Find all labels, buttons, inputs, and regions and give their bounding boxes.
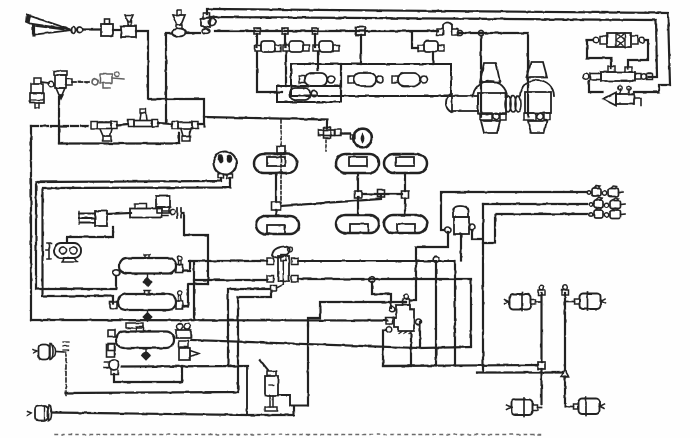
clutch servo K <box>46 243 81 262</box>
governor bottom wire <box>589 81 603 92</box>
relay valve <box>386 295 422 334</box>
condensation tag <box>63 342 69 395</box>
brake valve tee 2 <box>128 109 158 127</box>
riser to relay feed line <box>308 302 406 406</box>
gauge line lower <box>43 178 231 303</box>
air tank 3 <box>108 323 174 360</box>
jog between circuit drops <box>483 215 495 243</box>
chamber left vertical <box>540 293 542 362</box>
link line y348 <box>420 347 471 348</box>
wire y33 <box>166 32 200 34</box>
bottom bus y366 right <box>383 365 538 366</box>
brake chamber top-left <box>505 293 542 312</box>
axle crossfeed line <box>281 196 381 206</box>
dryer left wire <box>587 40 611 68</box>
park brake bus y320 <box>31 319 387 322</box>
left supply vertical x31 <box>30 126 32 320</box>
chamber right vertical <box>564 293 566 370</box>
cylinder box lower <box>277 86 341 102</box>
filter drop wire <box>58 97 60 143</box>
lift axle control cylinder <box>260 360 278 411</box>
right ear wire <box>472 230 482 239</box>
branch to relay top-left <box>372 282 391 308</box>
line y261 drop <box>454 261 456 366</box>
four-circuit protection valve <box>445 206 475 234</box>
tire inflation valve 3 <box>313 34 339 52</box>
antifreeze pump <box>156 196 181 218</box>
brake chamber bottom-left <box>507 398 542 417</box>
compressor right cylinder <box>520 62 554 133</box>
drop fitting 1 <box>254 28 260 34</box>
axle fitting 2 <box>355 191 362 198</box>
compressor bellows <box>505 96 521 112</box>
vertical line from funnel filter junction <box>165 34 167 123</box>
electric horn bottom-left <box>27 405 52 421</box>
drop from ring x436 <box>435 262 437 366</box>
quick coupler 1 <box>587 186 623 197</box>
junction square <box>538 362 545 369</box>
supply line y261 <box>189 260 267 262</box>
drain valve with cone <box>179 348 199 360</box>
brake chamber bottom-right <box>566 397 604 416</box>
wire y144 to tee3 foot <box>59 133 179 144</box>
pressure gauge <box>351 129 372 148</box>
torpedo cylinder 3 <box>392 73 428 86</box>
dashed drop to axle <box>280 120 282 146</box>
air tank 1 <box>113 255 183 287</box>
relay right out <box>419 322 421 348</box>
left feeder vertical <box>193 262 195 320</box>
circuit line 2 drop <box>482 204 484 372</box>
air filter <box>48 71 72 99</box>
compressor manifold <box>458 33 528 117</box>
tire right bottom <box>384 215 427 233</box>
compressor left cylinder <box>446 63 507 133</box>
bus y373 <box>477 371 562 373</box>
compressor left pipe <box>480 36 482 117</box>
relay top feed <box>410 232 448 300</box>
gauge inlet fittings <box>319 128 351 139</box>
bus line y31 <box>215 30 438 32</box>
axle fitting 3 <box>402 191 409 198</box>
tire middle bottom <box>336 215 379 233</box>
air dryer <box>593 33 645 47</box>
wires into boxes <box>257 35 433 92</box>
bus line B second <box>211 17 657 77</box>
tire front-left bottom <box>256 216 299 234</box>
cylinder box divider <box>340 64 342 96</box>
brake chamber top-right <box>566 292 605 311</box>
cylinder outlet wire <box>278 395 308 406</box>
dashed linkage wire <box>72 81 91 83</box>
gauge line upper <box>36 178 221 289</box>
horn wire to bottom net <box>52 406 294 415</box>
torpedo cylinder 2 <box>348 73 384 86</box>
tire inflation valve 2 <box>283 34 309 52</box>
axle column 3 <box>404 173 406 215</box>
chamber feed fitting left <box>538 285 545 295</box>
bus line A top <box>207 9 670 92</box>
junction box fitting <box>356 27 365 35</box>
cylinder box upper <box>291 64 451 96</box>
hand brake valve <box>267 244 298 291</box>
hand valve right lines <box>298 260 455 262</box>
dryer right wire <box>628 40 648 68</box>
bottom bus y366 left <box>122 365 248 368</box>
axle column 2 <box>357 173 359 215</box>
fork heater valve <box>79 211 107 226</box>
air horn <box>26 15 83 36</box>
wire <box>113 29 121 31</box>
tire inflation valve 4 <box>412 32 444 52</box>
safety valve <box>603 86 641 106</box>
wire y117 to gauge <box>204 117 327 128</box>
circuit line 2 to coupler <box>483 203 587 205</box>
hand valve bottom wire inner <box>66 291 271 393</box>
sloped line to bottom right <box>191 340 419 348</box>
relay bottom-left out <box>383 330 411 366</box>
quick coupler 3 <box>589 208 625 219</box>
shutoff valve V1 <box>101 19 113 36</box>
circuit line 1 to coupler <box>441 192 587 230</box>
governor <box>583 66 652 81</box>
drop fitting 2 <box>282 28 288 34</box>
wire switch to filter <box>41 82 49 83</box>
horn valve with round body <box>201 13 216 33</box>
tire front-left top <box>254 154 297 173</box>
triangle junction <box>562 370 569 377</box>
wire horn to valve <box>83 28 100 30</box>
wire fork to pedal valve <box>107 213 131 214</box>
pressure reducer V2 <box>121 15 136 37</box>
brake valve tee 3 <box>172 122 198 142</box>
wire fork down to clutch servo <box>67 227 113 242</box>
axle column 1 <box>275 173 277 216</box>
axle middle fitting <box>378 190 385 197</box>
tank3 left filter <box>104 344 119 375</box>
axle valve 1 <box>272 202 281 210</box>
antifreeze funnel valve <box>172 10 186 37</box>
axle line 2-3 <box>362 193 402 195</box>
pedal valve <box>130 204 168 218</box>
valve bottom pipe <box>460 234 462 260</box>
torpedo cylinder 4 <box>290 88 317 100</box>
dashed supply bus y126 <box>31 125 91 127</box>
double pressure gauge <box>214 152 237 179</box>
tire inflation valve 1 <box>255 34 281 52</box>
compressor feed valve <box>437 23 458 36</box>
wire to down corner <box>136 31 204 126</box>
circuit line 3 to coupler <box>496 213 587 215</box>
brake valve tee 1 <box>91 122 117 142</box>
heater chamber canister <box>33 344 64 360</box>
tire right top <box>384 154 427 173</box>
quick coupler 2 <box>589 198 625 209</box>
tank1 outlet wire <box>183 261 191 271</box>
drop wire x247 <box>246 366 248 414</box>
linkage assembly (faint) <box>92 72 124 89</box>
tank2 outlet wire <box>184 284 208 307</box>
tank3 bottom loop <box>114 366 182 382</box>
double check valve <box>176 324 191 348</box>
pressure switch top-left <box>30 78 44 108</box>
junction ring <box>433 257 439 263</box>
chamber feed fitting right <box>562 285 569 295</box>
pump wire down to reservoir line <box>182 213 208 284</box>
hand valve lower-left line <box>194 279 267 281</box>
junction ring on y279 <box>369 277 375 283</box>
torpedo cylinder 1 <box>299 73 335 86</box>
tire middle top <box>336 154 379 173</box>
hand valve bottom wire outer <box>228 289 270 364</box>
drop fitting 3 <box>312 28 318 34</box>
scan artifact dotted line <box>55 434 545 436</box>
air tank 2 <box>110 291 183 322</box>
